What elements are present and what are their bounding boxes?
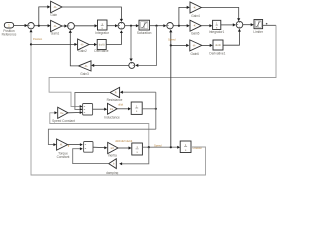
- gain Gain4: [190, 2, 201, 18]
- integrator Integrator: [95, 20, 110, 35]
- wire current node: [142, 92, 157, 129]
- wire Integrator to sum3: [107, 24, 118, 27]
- wire current to Torque Constant: [48, 129, 155, 146]
- wire sum6 to Gain3: [91, 64, 129, 67]
- derivative Derivative1: [209, 40, 225, 55]
- svg-text:1: 1: [8, 24, 10, 28]
- svg-text:Inductance: Inductance: [104, 115, 120, 119]
- sum1 (position error): [28, 23, 34, 29]
- svg-text:-K-: -K-: [53, 24, 57, 28]
- junction sum4 out: [178, 25, 180, 27]
- wire sum4 to Gain5: [173, 24, 190, 27]
- svg-text:Inertia: Inertia: [108, 154, 117, 158]
- wire Limiter output to voltage bus: [263, 23, 276, 25]
- svg-text:-K-: -K-: [80, 43, 84, 47]
- svg-text:damping: damping: [106, 171, 118, 175]
- wire Resistance to sum middle: [75, 93, 110, 111]
- wire oval to sum1: [14, 24, 28, 27]
- wire speed feedback up to sum4: [169, 29, 172, 147]
- sum mechanical (torque sum): [84, 142, 93, 153]
- wire position feedback loop: [30, 29, 206, 175]
- sum3 (PID sum): [118, 22, 125, 29]
- svg-text:Position: Position: [193, 146, 203, 150]
- wire sum1 to Gain1: [34, 24, 50, 27]
- svg-text:Speed Constant: Speed Constant: [52, 119, 75, 123]
- wire Gain4 to sum5 top: [201, 8, 240, 22]
- wire sum3 to Saturation: [125, 24, 139, 27]
- svg-text:-K-: -K-: [53, 5, 57, 9]
- svg-text:-K-: -K-: [84, 64, 88, 68]
- svg-text:Reference: Reference: [2, 32, 17, 36]
- svg-text:du/dt: du/dt: [215, 43, 221, 47]
- gain Gain (P): [50, 1, 62, 17]
- svg-text:d2th/dt2=dw/dt: d2th/dt2=dw/dt: [115, 139, 132, 143]
- wire sum5 to Limiter: [243, 23, 254, 26]
- saturation Limiter: [253, 20, 264, 35]
- junction position to Gain2: [30, 43, 32, 45]
- svg-text:Gain1: Gain1: [51, 32, 60, 36]
- svg-text:Gain5: Gain5: [191, 31, 200, 35]
- integrator Integrator1: [209, 20, 225, 34]
- wire junction speed to Gain6: [171, 44, 189, 47]
- wire Speed Constant to sum bottom: [68, 111, 83, 114]
- saturation Saturation: [137, 20, 152, 35]
- sum4 (speed loop sum): [167, 23, 173, 29]
- svg-text:Kt: Kt: [60, 144, 63, 147]
- junction post-saturation: [155, 25, 157, 27]
- gain Gain3 (anti-windup): [79, 61, 92, 76]
- wire Inertia to Integrator3: [118, 146, 132, 149]
- wire sum2 to Integrator: [74, 24, 97, 27]
- integrator Integrator3 (speed): [132, 143, 143, 155]
- svg-text:Constant: Constant: [57, 155, 70, 159]
- wire Derivative1 to sum5 bottom: [223, 29, 241, 46]
- wire current to Resistance: [120, 91, 156, 94]
- wire sum to Inductance: [93, 108, 108, 111]
- junction pre-saturation: [130, 25, 132, 27]
- svg-text:Gain: Gain: [50, 13, 57, 17]
- svg-text:di/dt: di/dt: [118, 103, 123, 107]
- svg-text:Derivative1: Derivative1: [209, 51, 225, 55]
- svg-text:Resistance: Resistance: [107, 98, 123, 102]
- integrator Integrator4 (position): [180, 141, 191, 153]
- junction on speed line: [170, 44, 172, 46]
- svg-text:Gain3: Gain3: [80, 72, 89, 76]
- derivative Derivative: [94, 40, 108, 53]
- sum2 (integrator input): [68, 23, 75, 30]
- svg-text:Integrator1: Integrator1: [209, 30, 225, 34]
- svg-text:Speed: Speed: [168, 37, 176, 41]
- gain Gain1 (I path): [51, 20, 62, 35]
- junction sum1 out: [38, 25, 40, 27]
- gain Inertia (1/J): [108, 142, 118, 157]
- svg-text:Gain4: Gain4: [191, 14, 200, 18]
- gain Speed Constant (Ke back-emf): [52, 107, 75, 123]
- gain Gain5: [190, 20, 201, 35]
- svg-text:-K-: -K-: [193, 24, 197, 28]
- sum5 (PID out sum): [236, 21, 243, 28]
- gain damping (b): [106, 159, 118, 175]
- svg-text:Derivative: Derivative: [94, 49, 108, 53]
- svg-text:Speed: Speed: [154, 143, 162, 147]
- wire branch down to sum6 right: [135, 26, 156, 67]
- svg-text:-K-: -K-: [193, 43, 197, 47]
- svg-text:-K-: -K-: [193, 6, 197, 10]
- inport oval "1" Position Reference: [2, 23, 17, 37]
- wire damping to mech sum bottom: [73, 147, 109, 163]
- integrator Integrator2 (current): [131, 102, 142, 114]
- wire mech sum to Inertia: [93, 146, 107, 149]
- wire Gain6 to Derivative1: [202, 44, 213, 47]
- svg-text:Position: Position: [33, 37, 43, 41]
- svg-text:Gain6: Gain6: [190, 52, 199, 56]
- svg-text:du/dt: du/dt: [99, 43, 105, 47]
- wire Integrator1 to sum5: [221, 23, 236, 26]
- svg-text:R: R: [115, 92, 117, 95]
- gain Inductance (1/L): [104, 103, 120, 119]
- wire position to Gain2: [31, 43, 77, 46]
- wire Gain2 to Derivative: [89, 43, 97, 46]
- gain Gain6: [190, 40, 202, 56]
- sum6 (anti-windup difference): [129, 62, 135, 68]
- wire branch up to Gain4: [179, 6, 190, 26]
- wire Gain3 up to sum2 bottom: [69, 30, 79, 66]
- gain Resistance (R): [107, 87, 123, 102]
- wire Saturation to sum4: [150, 24, 167, 27]
- wire Torque Constant to mech sum: [68, 143, 83, 146]
- wire Gain to sum3 top: [62, 7, 123, 22]
- wire damping feed: [119, 147, 149, 165]
- wire Gain5 to Integrator1: [201, 24, 212, 27]
- wire speed to Speed Constant: [50, 111, 149, 147]
- wire branch up to Gain: [39, 5, 51, 25]
- sum armature (voltage sum): [83, 104, 93, 116]
- gain Torque Constant (Kt): [57, 139, 70, 159]
- wire speed row: [142, 146, 180, 149]
- wire applied voltage loop: [49, 25, 276, 108]
- wire Derivative to sum3 bottom: [106, 30, 123, 44]
- wire branch down to sum6 top: [130, 26, 133, 62]
- gain Gain2 (D path): [78, 39, 89, 53]
- svg-text:Saturation: Saturation: [137, 31, 152, 35]
- wire Inductance to Integrator2: [117, 107, 131, 110]
- svg-text:Gain2: Gain2: [78, 49, 87, 53]
- wire Gain1 to sum2: [62, 24, 67, 27]
- svg-text:Limiter: Limiter: [253, 30, 264, 34]
- svg-text:Integrator: Integrator: [95, 31, 110, 35]
